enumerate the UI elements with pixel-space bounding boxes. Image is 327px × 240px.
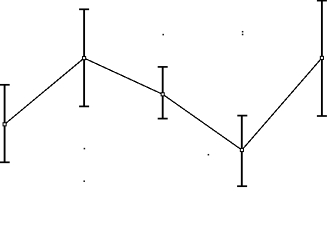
error bar 3 bottom cap [158, 118, 168, 120]
error bar 3 vertical [162, 67, 164, 119]
wire polyline connecting data points [5, 58, 322, 150]
error bar 1 bottom cap [0, 161, 10, 163]
error bar 4 vertical [241, 116, 243, 187]
data point 1 marker [3, 123, 6, 126]
data point 2 marker [83, 57, 86, 60]
stray dot E [242, 34, 244, 36]
data point 3 marker [161, 93, 164, 96]
error bar 5 vertical [321, 1, 323, 116]
error bar 5 bottom cap [317, 115, 327, 117]
error bar 5 top cap [317, 0, 327, 2]
error bar 4 top cap [237, 115, 247, 117]
error bar 3 top cap [158, 66, 168, 68]
stray dot A [84, 148, 86, 150]
stray dot B [83, 180, 85, 182]
error bar 2 bottom cap [79, 105, 89, 107]
error bar 1 top cap [0, 84, 10, 86]
error bar 1 vertical [4, 85, 6, 163]
stray dot F [208, 154, 210, 156]
stray dot C [162, 34, 164, 36]
error bar 2 top cap [79, 8, 89, 10]
data point 4 marker [240, 148, 243, 151]
error bar 4 bottom cap [237, 185, 247, 187]
data point 5 marker [320, 56, 323, 59]
stray dot D [242, 31, 244, 33]
error bar 2 vertical [83, 9, 85, 106]
